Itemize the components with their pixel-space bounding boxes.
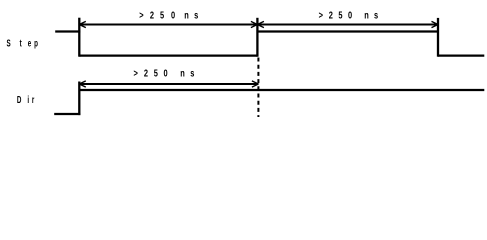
svg-text:s: s	[190, 67, 194, 78]
svg-text:2: 2	[329, 9, 333, 20]
svg-text:2: 2	[144, 67, 148, 78]
wire Step rising edge boundary 2	[256, 18, 258, 57]
svg-text:s: s	[374, 9, 378, 20]
svg-text:0: 0	[171, 9, 175, 20]
svg-text:n: n	[180, 67, 185, 78]
wire Dir rising edge boundary	[78, 82, 80, 116]
svg-text:i: i	[27, 94, 29, 106]
dimension arrow measure 1 Step low width	[79, 21, 257, 27]
svg-text:>: >	[134, 67, 138, 78]
label Dir	[17, 94, 35, 106]
svg-text:e: e	[28, 37, 32, 49]
svg-text:>: >	[319, 9, 323, 20]
svg-text:D: D	[17, 94, 22, 106]
svg-text:s: s	[194, 9, 198, 20]
wire Step falling edge boundary 1	[78, 18, 80, 57]
wire Step high stub	[55, 30, 80, 32]
svg-text:p: p	[34, 37, 38, 49]
svg-text:5: 5	[338, 9, 342, 20]
svg-text:0: 0	[164, 67, 168, 78]
svg-text:2: 2	[150, 9, 154, 20]
wire Dir high segment	[79, 89, 484, 91]
svg-text:5: 5	[160, 9, 164, 20]
wire Step low segment	[79, 54, 257, 56]
value label >250 ns (measure 2)	[319, 9, 379, 20]
svg-text:n: n	[184, 9, 189, 20]
wire Step falling edge boundary 3	[437, 18, 439, 57]
wire Dir low stub	[54, 113, 80, 115]
svg-text:t: t	[20, 37, 22, 49]
dimension arrow measure 2 Step high width	[257, 21, 438, 27]
svg-text:S: S	[6, 37, 10, 49]
wire Step low right segment	[438, 54, 484, 56]
node dashed reference line at Step rising edge	[257, 58, 259, 118]
svg-text:>: >	[139, 9, 143, 20]
wire Step high segment	[257, 30, 438, 32]
value label >250 ns (measure 1)	[139, 9, 198, 20]
svg-text:5: 5	[154, 67, 158, 78]
svg-text:0: 0	[348, 9, 352, 20]
svg-text:n: n	[364, 9, 369, 20]
value label >250 ns (measure 3)	[134, 67, 195, 78]
label Step	[6, 37, 38, 49]
dimension arrow measure 3 Dir setup time	[79, 81, 258, 87]
